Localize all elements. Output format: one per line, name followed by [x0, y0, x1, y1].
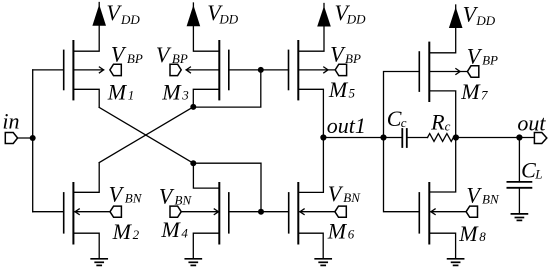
svg-text:DD: DD	[218, 12, 238, 27]
svg-text:M: M	[160, 217, 181, 242]
power VDD arrow column 1	[92, 3, 106, 26]
svg-text:DD: DD	[346, 12, 366, 27]
svg-text:C: C	[521, 157, 536, 182]
label VBP of M5	[330, 42, 361, 67]
port VBP of M3	[170, 64, 181, 75]
label Rc	[430, 110, 451, 135]
svg-text:C: C	[387, 106, 402, 131]
svg-text:3: 3	[181, 88, 189, 103]
port VBP of M1	[110, 64, 121, 75]
wire M7 drain to output	[429, 91, 455, 138]
wire out1 node to M8 gate	[384, 138, 420, 212]
wire CL to ground	[518, 188, 520, 214]
wire VDD to M7 source	[429, 28, 455, 53]
port VBN of M8	[466, 206, 477, 217]
label M6	[327, 218, 355, 243]
svg-text:M: M	[112, 219, 133, 244]
label VDD column 2	[207, 0, 239, 27]
ground under M6	[315, 259, 331, 266]
svg-text:BP: BP	[482, 53, 498, 68]
label VBP of M3	[156, 42, 188, 67]
svg-text:L: L	[534, 166, 542, 181]
label out1	[327, 113, 366, 138]
label VBN of M6	[328, 181, 362, 206]
svg-text:M: M	[161, 79, 182, 104]
svg-text:V: V	[109, 181, 125, 206]
label VDD column 1	[106, 0, 140, 27]
transistor M2 (NMOS)	[64, 183, 74, 244]
wire M4 bulk arrow from VBN port	[181, 209, 218, 215]
svg-text:M: M	[460, 79, 481, 104]
wire out1 to Cc	[323, 137, 402, 139]
wire M4 source to ground	[193, 233, 219, 259]
label M8	[458, 221, 486, 246]
wire out1 node to M7 gate	[384, 72, 420, 138]
wire M1 gate lead	[33, 69, 64, 71]
label M2	[112, 219, 140, 244]
label VBN of M2	[109, 181, 143, 206]
svg-text:4: 4	[181, 226, 188, 241]
wire cross-couple M1 drain to M4 gate node	[99, 107, 193, 163]
svg-text:M: M	[107, 79, 128, 104]
svg-text:V: V	[330, 42, 346, 67]
transistor M6 (NMOS)	[289, 183, 299, 244]
svg-text:V: V	[111, 41, 127, 66]
svg-text:V: V	[106, 0, 122, 25]
node second stage output junction	[453, 134, 459, 140]
port VBN of M6	[335, 206, 346, 217]
port VBN of M4	[170, 206, 181, 217]
capacitor CL	[507, 182, 531, 188]
label VBN of M8	[466, 183, 500, 208]
label M4	[160, 217, 188, 242]
label in	[2, 109, 19, 134]
wire M3 gate to drain (diode connection)	[193, 70, 260, 107]
wire M1 drain down	[73, 89, 99, 107]
label M1	[107, 79, 135, 104]
label CL	[521, 157, 542, 182]
label M5	[328, 77, 356, 102]
wire M3 drain down	[193, 89, 219, 107]
node CL junction	[516, 134, 522, 140]
node M3 drain junction	[190, 104, 196, 110]
wire M6 source to ground	[298, 233, 323, 259]
wire M7 bulk arrow to VBP port	[429, 69, 467, 75]
ground under M2	[91, 259, 107, 266]
label out	[517, 111, 546, 136]
svg-text:V: V	[156, 42, 172, 67]
transistor M7 (PMOS)	[419, 43, 429, 101]
svg-text:V: V	[467, 43, 483, 68]
ground under M8	[448, 259, 464, 266]
svg-text:M: M	[458, 221, 479, 246]
svg-text:BP: BP	[172, 51, 188, 66]
svg-text:R: R	[430, 110, 445, 135]
port VBN of M2	[110, 206, 121, 217]
wire VDD to M5 source	[298, 27, 324, 52]
port VBP of M7	[467, 66, 478, 77]
label VDD column 4	[463, 1, 496, 28]
wire M4 drain up (diode connection)	[193, 163, 219, 188]
svg-text:BN: BN	[175, 192, 193, 207]
power VDD arrow column 3	[317, 4, 331, 27]
transistor M1 (PMOS)	[64, 41, 74, 99]
label Cc	[387, 106, 407, 131]
wire cross-couple M2 drain to M3 gate node	[99, 107, 193, 163]
wire output line to out port	[456, 137, 535, 139]
transistor M3 (PMOS mirrored)	[219, 41, 229, 99]
wire M2 drain up	[73, 163, 99, 193]
label M7	[460, 79, 488, 104]
wire M3 bulk arrow to VBP port	[186, 67, 219, 73]
wire M2 gate lead	[33, 211, 64, 213]
svg-text:BN: BN	[482, 192, 500, 207]
wire VDD to M3 source	[193, 26, 219, 51]
label VBP of M7	[467, 43, 498, 68]
power VDD arrow column 4	[449, 5, 463, 28]
svg-text:7: 7	[481, 88, 488, 103]
svg-text:c: c	[445, 118, 451, 133]
svg-text:V: V	[328, 181, 344, 206]
node out1 junction	[320, 134, 326, 140]
svg-text:BP: BP	[345, 51, 361, 66]
wire M1 bulk arrow to VBP port	[73, 67, 103, 73]
svg-text:2: 2	[133, 227, 140, 242]
svg-text:out: out	[517, 111, 546, 136]
capacitor Cc	[402, 129, 407, 147]
label VDD column 3	[335, 0, 367, 27]
svg-text:V: V	[466, 183, 482, 208]
svg-text:V: V	[159, 183, 175, 208]
svg-text:1: 1	[128, 88, 135, 103]
svg-text:BN: BN	[125, 190, 143, 205]
svg-text:M: M	[328, 77, 349, 102]
wire M2 source to ground	[73, 233, 99, 259]
node M4 gate junction	[190, 160, 196, 166]
label M3	[161, 79, 189, 104]
wire M5 drain to out1	[298, 89, 323, 137]
transistor M4 (NMOS mirrored)	[219, 183, 229, 244]
wire Cc to Rc	[407, 137, 428, 139]
ground under CL	[511, 214, 527, 221]
resistor Rc	[428, 134, 456, 142]
power VDD arrow column 2	[187, 3, 201, 26]
node M7/M8 gate junction	[380, 134, 386, 140]
wire M4 gate node to gate line	[193, 163, 261, 212]
wire M8 source to ground	[429, 233, 455, 259]
svg-text:BN: BN	[343, 190, 361, 205]
wire M5 bulk arrow to VBP port	[298, 67, 335, 73]
svg-text:DD: DD	[475, 13, 495, 28]
port VBP of M5	[335, 64, 346, 75]
node M4 gate line junction	[258, 209, 264, 215]
port in	[5, 133, 17, 144]
svg-text:BP: BP	[127, 51, 143, 66]
wire M8 drain to output	[429, 138, 455, 193]
wire M2 bulk arrow to VBN port	[75, 209, 110, 215]
wire CL node down to capacitor	[518, 138, 520, 182]
transistor M8 (NMOS)	[419, 183, 429, 244]
wire M4-M6 gate line	[229, 211, 289, 213]
port out	[534, 133, 546, 144]
wire M6 bulk arrow to VBN port	[300, 209, 335, 215]
wire M3-M5 gate line	[229, 69, 289, 71]
wire M6 drain to out1	[298, 138, 323, 193]
svg-text:in: in	[2, 109, 19, 134]
node M3 gate junction	[258, 67, 264, 73]
label VBP of M1	[111, 41, 143, 66]
svg-text:5: 5	[349, 85, 356, 100]
wire VDD to M1 source	[73, 26, 99, 51]
wire input gate column vertical	[32, 70, 34, 212]
svg-text:6: 6	[348, 227, 355, 242]
label VBN of M4	[159, 183, 193, 208]
svg-text:out1: out1	[327, 113, 366, 138]
svg-text:DD: DD	[120, 12, 140, 27]
wire in port to gate column	[18, 137, 33, 139]
node in junction	[30, 135, 36, 141]
svg-text:M: M	[327, 218, 348, 243]
ground under M4	[185, 259, 201, 266]
wire M8 bulk arrow to VBN port	[431, 209, 466, 215]
svg-text:8: 8	[479, 229, 486, 244]
svg-text:c: c	[401, 115, 407, 130]
transistor M5 (PMOS)	[289, 41, 299, 99]
